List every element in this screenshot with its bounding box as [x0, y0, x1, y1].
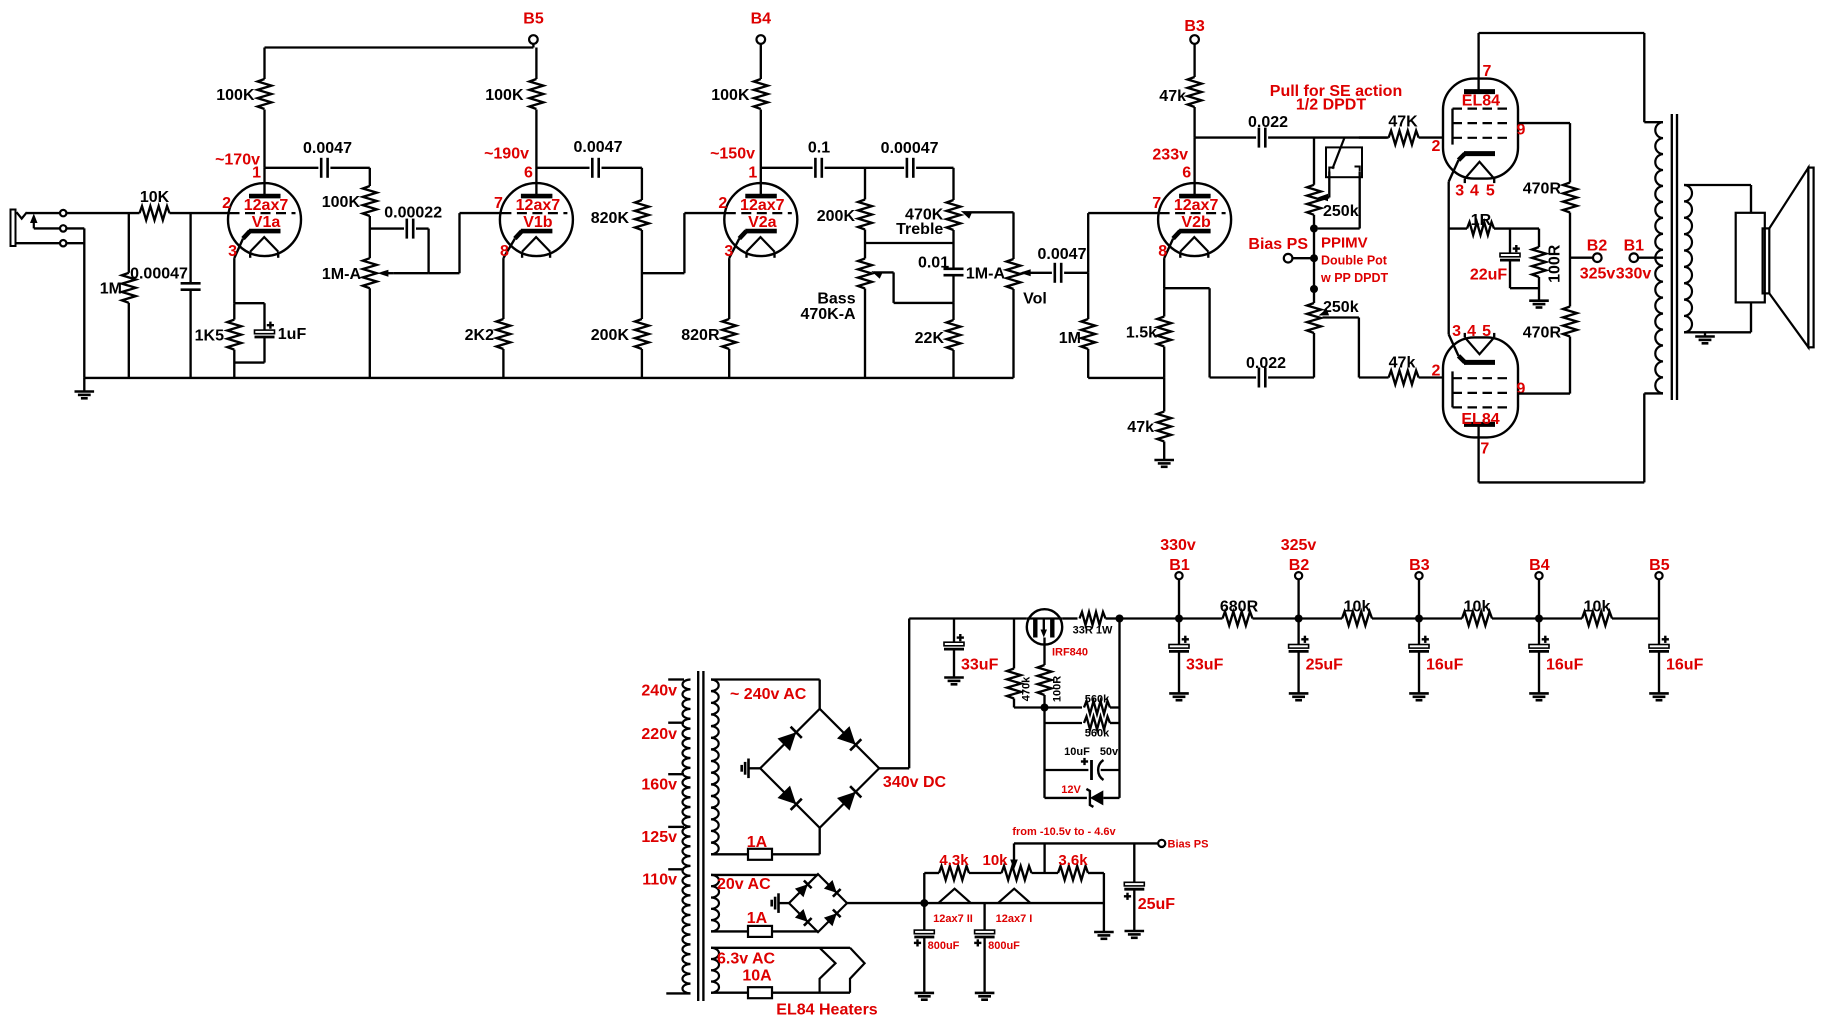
junction dot 33R out [1116, 615, 1124, 623]
svg-text:100K: 100K [216, 87, 255, 104]
resistor 560k (lower) [1045, 717, 1120, 740]
heater filament 12ax7 II [933, 889, 973, 925]
PT core [698, 671, 703, 1001]
terminal B4 [751, 10, 772, 44]
svg-text:Double Pot: Double Pot [1321, 253, 1388, 267]
svg-text:220v: 220v [641, 726, 677, 743]
svg-text:1M: 1M [1059, 330, 1081, 347]
capacitor 1uF (V1a bypass) [234, 303, 306, 362]
svg-text:33uF: 33uF [961, 656, 999, 673]
bridge rectifier diamond [760, 709, 879, 828]
V2b plate lead [1193, 138, 1195, 184]
svg-text:B3: B3 [1184, 18, 1205, 35]
svg-text:3: 3 [1452, 323, 1461, 340]
wire B1 to OT center tap [1638, 257, 1663, 259]
junction dot divider [1041, 704, 1049, 712]
svg-text:330v: 330v [1616, 266, 1652, 283]
wire 10K to V1a grid [170, 212, 229, 214]
heater chevron 2 [850, 948, 865, 993]
svg-text:EL84 Heaters: EL84 Heaters [776, 1001, 877, 1018]
node V2b grid riser [1088, 213, 1158, 273]
speaker driver [1736, 213, 1770, 303]
svg-text:50v: 50v [1100, 746, 1119, 758]
resistor 1K5 (V1a cathode) [195, 303, 242, 378]
svg-text:560k: 560k [1085, 694, 1110, 706]
wire to 820K [602, 168, 642, 200]
svg-text:4.3k: 4.3k [939, 852, 969, 869]
svg-text:325v: 325v [1580, 266, 1616, 283]
wire bridge + to rail [879, 619, 1027, 769]
svg-text:from -10.5v to - 4.6v: from -10.5v to - 4.6v [1012, 826, 1116, 838]
small bridge D4 [824, 910, 841, 927]
resistor 47k (bottom grid) [1359, 354, 1444, 384]
svg-text:470K-A: 470K-A [800, 306, 856, 323]
V1a cathode lead [233, 258, 235, 303]
svg-text:V2b: V2b [1181, 214, 1211, 231]
switch 1/2 DPDT box [1326, 147, 1362, 177]
label Double Pot [1321, 253, 1388, 267]
svg-text:1.5k: 1.5k [1126, 324, 1157, 341]
label ~ 240v AC [730, 686, 807, 703]
svg-text:470R: 470R [1523, 180, 1562, 197]
svg-text:110v: 110v [642, 872, 677, 889]
svg-text:B3: B3 [1409, 557, 1430, 574]
terminal B4 (psu) [1529, 557, 1550, 619]
label 20v AC [717, 876, 771, 893]
svg-text:25uF: 25uF [1138, 896, 1176, 913]
svg-text:1A: 1A [747, 910, 768, 927]
pot 250k (top PPIMV) [1307, 138, 1359, 229]
terminal B2 (output) [1580, 237, 1616, 282]
svg-text:325v: 325v [1281, 537, 1317, 554]
resistor 820R (V2a cathode) [681, 319, 736, 378]
capacitor 10uF 50v [1045, 746, 1120, 780]
svg-text:10k: 10k [1464, 598, 1491, 615]
svg-text:1A: 1A [747, 834, 768, 851]
pentode EL84 (bottom) [1443, 333, 1518, 438]
PT taps [666, 680, 690, 994]
wire EL84 top anode to OT [1479, 33, 1663, 122]
EL84 top labels [1431, 63, 1525, 200]
junction dot B3 [1415, 615, 1423, 623]
svg-text:10A: 10A [742, 967, 772, 984]
wire jack tip to grid node [67, 212, 140, 214]
bridge diode D3 [778, 786, 802, 810]
resistor 3.6k [1058, 852, 1088, 880]
junction dot PPIMV mid [1310, 254, 1318, 262]
OT secondary bottom wire [1684, 302, 1751, 332]
capacitor 0.0047 (V1b out) [574, 139, 623, 178]
resistor 100R (cathode) [1532, 229, 1564, 301]
capacitor 0.01 [918, 243, 964, 303]
svg-text:B1: B1 [1624, 237, 1645, 254]
riser to V2a grid [684, 213, 724, 273]
OT secondary top wire [1684, 185, 1751, 213]
svg-text:V1b: V1b [523, 214, 553, 231]
PPIMV center column [1313, 229, 1315, 290]
svg-text:33uF: 33uF [1186, 656, 1224, 673]
terminal Bias PS (psu) [1158, 838, 1208, 850]
tube V1a 12ax7 [222, 164, 301, 260]
capacitor 0.00047 (tone) [865, 140, 954, 178]
wire B2 tap [1570, 257, 1593, 259]
terminal B5 [523, 10, 544, 47]
capacitor 0.022 (bottom) [1246, 355, 1286, 388]
svg-text:B4: B4 [751, 10, 772, 27]
svg-text:Bias PS: Bias PS [1168, 838, 1209, 850]
treble bottom wire [865, 242, 954, 244]
svg-text:1/2 DPDT: 1/2 DPDT [1296, 96, 1366, 113]
svg-text:Treble: Treble [896, 221, 943, 238]
wire top screen [1518, 123, 1570, 182]
svg-text:7: 7 [494, 195, 503, 212]
svg-text:7: 7 [1483, 63, 1492, 80]
ground bus [84, 377, 1013, 379]
bridge diode D2 [837, 726, 861, 750]
svg-text:1M: 1M [100, 281, 122, 298]
capacitor 16uF (B3) [1409, 619, 1464, 701]
svg-text:0.0047: 0.0047 [303, 140, 352, 157]
resistor 4.3k [939, 852, 969, 880]
svg-text:1M-A: 1M-A [322, 266, 362, 283]
svg-text:7: 7 [1480, 440, 1489, 457]
svg-text:6.3v AC: 6.3v AC [717, 951, 776, 968]
label 233v [1152, 146, 1188, 163]
svg-text:47K: 47K [1388, 113, 1418, 130]
pot 470K-A Bass [800, 243, 872, 378]
capacitor 16uF (B4) [1529, 619, 1584, 701]
svg-text:820K: 820K [591, 210, 630, 227]
svg-text:33R 1W: 33R 1W [1073, 625, 1113, 637]
heater chevron 1 [820, 948, 836, 993]
svg-text:~190v: ~190v [484, 145, 529, 162]
svg-text:250k: 250k [1323, 299, 1359, 316]
resistor 47k (V2b tail) [1127, 378, 1171, 460]
resistor 100K (V2a plate) [711, 44, 768, 109]
svg-text:16uF: 16uF [1666, 656, 1704, 673]
svg-text:2K2: 2K2 [465, 327, 494, 344]
resistor 100K (V1b plate) [485, 48, 543, 110]
ground symbol (main bus) [75, 378, 95, 398]
small bridge D3 [795, 909, 812, 926]
resistor 1R [1449, 212, 1539, 235]
svg-text:Bias PS: Bias PS [1248, 236, 1308, 253]
wire tip node [62, 212, 64, 214]
terminal B3 (preamp) [1184, 18, 1205, 44]
small bridge diamond [789, 874, 847, 932]
small bridge D1 [795, 881, 812, 898]
pot 10k (bias) [982, 852, 1031, 880]
vol wiper arrow [1020, 269, 1052, 276]
resistor 47K (top grid) [1359, 113, 1444, 144]
fuse 10A [742, 967, 772, 998]
resistor 470R (bottom) [1523, 307, 1577, 394]
bridge ground [742, 759, 761, 779]
svg-text:4: 4 [1470, 182, 1479, 199]
node cathode V1a [234, 302, 264, 304]
10k wiper [1010, 843, 1018, 869]
svg-text:5: 5 [1486, 182, 1495, 199]
fuse 1A (HT) [747, 834, 772, 860]
pot 250k (bottom PPIMV) [1307, 289, 1359, 378]
treble wiper arrow [961, 211, 1014, 259]
tube V2a 12ax7 [718, 164, 797, 260]
terminal B2 (psu) [1281, 537, 1317, 619]
V1b plate node wire [536, 167, 589, 169]
svg-text:7: 7 [1152, 195, 1161, 212]
svg-text:8: 8 [500, 243, 509, 260]
small bridge ground [772, 893, 789, 913]
resistor 100K (interstage) [322, 186, 377, 216]
svg-text:Bass: Bass [817, 290, 855, 307]
node 820K/200K junction [641, 230, 643, 319]
bias heater wire [924, 902, 1104, 904]
svg-text:200K: 200K [591, 327, 630, 344]
svg-text:B2: B2 [1587, 237, 1608, 254]
svg-text:160v: 160v [641, 777, 677, 794]
svg-text:680R: 680R [1220, 598, 1259, 615]
svg-text:20v AC: 20v AC [717, 876, 771, 893]
V1b plate lead [535, 110, 537, 184]
OT primary winding [1655, 122, 1663, 393]
svg-text:12ax7 II: 12ax7 II [933, 913, 973, 925]
terminal B5 (psu) [1649, 557, 1670, 619]
pot 470K Treble [896, 168, 960, 243]
svg-text:B1: B1 [1169, 557, 1190, 574]
bridge diode D4 [837, 786, 861, 810]
label ~150v [710, 145, 755, 162]
wire 1M bottom to cathode column [1088, 377, 1164, 379]
wire small bridge out [847, 902, 924, 904]
svg-text:0.022: 0.022 [1246, 355, 1286, 372]
OT core [1672, 114, 1677, 400]
wire HT bottom to bridge [711, 828, 820, 855]
PT HT secondary [711, 680, 719, 855]
label w PP DPDT [1320, 271, 1389, 285]
OT secondary winding [1684, 185, 1692, 332]
junction dot bias node [920, 899, 928, 907]
ground symbol (cathode) [1529, 301, 1549, 308]
small bridge D2 [824, 880, 841, 897]
speaker cone [1769, 168, 1813, 348]
svg-text:~150v: ~150v [710, 145, 755, 162]
V1a plate resistor wire [263, 110, 265, 168]
svg-text:560k: 560k [1085, 728, 1110, 740]
svg-text:100K: 100K [322, 194, 361, 211]
PT 20v secondary [711, 875, 719, 931]
svg-text:1K5: 1K5 [195, 327, 224, 344]
wire 3.6k right down [1088, 873, 1114, 939]
resistor 10K (grid stopper) [140, 189, 170, 220]
V2a plate node wire [761, 167, 813, 169]
svg-text:22uF: 22uF [1470, 266, 1508, 283]
capacitor 33uF (B1) [1169, 619, 1224, 701]
jack sleeve terminal [16, 240, 67, 246]
wire 0.00022 to wiper node [429, 229, 460, 274]
capacitor 0.022 (top) [1248, 114, 1288, 148]
svg-text:1M-A: 1M-A [966, 265, 1006, 282]
svg-text:10K: 10K [140, 189, 170, 206]
svg-text:w PP DPDT: w PP DPDT [1320, 271, 1389, 285]
svg-text:0.0047: 0.0047 [1038, 246, 1087, 263]
svg-text:~ 240v AC: ~ 240v AC [730, 686, 807, 703]
svg-text:4: 4 [1467, 323, 1476, 340]
svg-text:B5: B5 [1649, 557, 1670, 574]
svg-text:B4: B4 [1529, 557, 1550, 574]
label ~190v [484, 145, 529, 162]
svg-text:10k: 10k [1584, 598, 1611, 615]
zener 12V [1045, 784, 1120, 807]
svg-text:100R: 100R [1547, 244, 1564, 283]
junction dot B1 [1175, 615, 1183, 623]
wire switch to wiper [1322, 177, 1329, 197]
capacitor 25uF (B2) [1289, 619, 1344, 701]
resistor 200K (V1b) [591, 319, 649, 378]
svg-text:2: 2 [1431, 362, 1440, 379]
divider right column [1118, 619, 1120, 798]
switch contact wires [1329, 172, 1359, 178]
switch lever [1329, 138, 1359, 172]
wire 20v bottom to small bridge [711, 930, 818, 932]
EL84 bottom labels [1431, 323, 1525, 457]
svg-text:3.6k: 3.6k [1058, 852, 1088, 869]
wire switch right contact down [1318, 177, 1360, 228]
svg-text:22K: 22K [915, 330, 945, 347]
svg-text:EL84: EL84 [1462, 93, 1500, 110]
resistor 470R (top) [1523, 180, 1577, 306]
resistor 22K [915, 303, 961, 378]
B5 top rail [265, 46, 534, 48]
fuse 1A (bias) [747, 910, 772, 937]
bass wiper arrow [871, 271, 953, 303]
capacitor 22uF [1470, 229, 1520, 289]
svg-text:0.00047: 0.00047 [130, 265, 188, 282]
capacitor 800uF (1) [914, 903, 960, 1000]
cathode node wire right [1164, 288, 1209, 377]
svg-text:800uF: 800uF [928, 940, 960, 952]
svg-text:10uF: 10uF [1064, 746, 1090, 758]
wire EL84 bottom anode to OT [1479, 393, 1663, 482]
wire 4.3k to 10k [969, 872, 1002, 874]
wire 0.022 to pot bottom [1268, 376, 1314, 378]
svg-text:V1a: V1a [252, 214, 281, 231]
svg-text:EL84: EL84 [1461, 411, 1499, 428]
riser to V1b grid [460, 213, 500, 273]
svg-text:0.022: 0.022 [1248, 114, 1288, 131]
V2a cathode lead [728, 258, 730, 319]
resistor 10k (B3-B4) [1419, 598, 1539, 625]
V1a plate node wire [265, 167, 319, 169]
svg-text:10k: 10k [982, 852, 1008, 869]
capacitor 0.1 [808, 139, 830, 178]
svg-text:1R: 1R [1471, 212, 1492, 229]
junction dot B4 [1535, 615, 1543, 623]
svg-text:16uF: 16uF [1426, 656, 1464, 673]
svg-text:100K: 100K [711, 87, 750, 104]
label EL84 Heaters [776, 1001, 877, 1018]
label 6.3v AC [717, 951, 776, 968]
svg-text:2: 2 [718, 195, 727, 212]
label ~170v [215, 151, 260, 168]
terminal B3 (psu) [1409, 557, 1430, 619]
svg-text:47k: 47k [1389, 354, 1416, 371]
svg-text:800uF: 800uF [988, 940, 1020, 952]
svg-text:V2a: V2a [748, 214, 777, 231]
junction dot B2 [1295, 615, 1303, 623]
resistor 47k (V2b plate) [1159, 44, 1201, 138]
svg-text:IRF840: IRF840 [1052, 647, 1088, 659]
svg-text:0.00047: 0.00047 [881, 140, 939, 157]
wire 10k to 3.6k [1032, 872, 1059, 874]
svg-text:0.1: 0.1 [808, 139, 830, 156]
V2a plate lead [760, 110, 762, 184]
bias rail [1014, 842, 1158, 844]
resistor 820K [591, 200, 649, 230]
ground symbol (V2b tail) [1154, 460, 1174, 467]
svg-text:B2: B2 [1289, 557, 1310, 574]
wire bottom screen [1518, 392, 1570, 394]
wire HT top to bridge [711, 680, 820, 709]
svg-text:0.0047: 0.0047 [574, 139, 623, 156]
resistor 200K (tone) [817, 168, 872, 243]
wire 0.1 to tone node [825, 167, 865, 169]
svg-text:5: 5 [1482, 323, 1491, 340]
capacitor 25uF (bias) [1124, 843, 1175, 937]
svg-text:8: 8 [1158, 243, 1167, 260]
svg-text:1uF: 1uF [278, 326, 307, 343]
svg-text:10k: 10k [1344, 598, 1371, 615]
svg-text:470R: 470R [1523, 325, 1562, 342]
svg-text:12ax7: 12ax7 [244, 197, 289, 214]
wire V2b plate to 0.022 [1195, 136, 1257, 138]
250k top wiper arrow [1318, 194, 1329, 201]
svg-text:820R: 820R [681, 327, 720, 344]
PT tap labels [641, 682, 677, 888]
wire 20v top to small bridge [711, 874, 818, 876]
riser bias tap [1043, 843, 1045, 873]
resistor 10k (B2-B3) [1299, 598, 1419, 625]
svg-text:B5: B5 [523, 10, 544, 27]
resistor 100K (V1a plate) [216, 48, 271, 110]
capacitor 0.0047 (to V2b) [1038, 246, 1089, 283]
ground symbol (speaker) [1695, 332, 1715, 343]
capacitor 33uF (reservoir) [944, 619, 999, 685]
svg-text:Vol: Vol [1023, 290, 1047, 307]
svg-text:2: 2 [1431, 138, 1440, 155]
wire junction to V2a grid riser [642, 272, 685, 274]
resistor 1.5k (V2b cathode) [1126, 288, 1171, 378]
svg-text:330v: 330v [1160, 537, 1196, 554]
PT primary winding [682, 680, 690, 994]
jack tip terminal [27, 210, 67, 216]
svg-text:~170v: ~170v [215, 151, 260, 168]
svg-text:6: 6 [524, 164, 533, 181]
svg-text:250k: 250k [1323, 203, 1359, 220]
terminal Bias PS (PPIMV) [1248, 236, 1314, 263]
V1a plate lead [263, 168, 265, 183]
svg-text:16uF: 16uF [1546, 656, 1584, 673]
resistor 2K2 (V1b cathode) [465, 319, 511, 378]
wire 0.022 to pot/switch [1268, 136, 1387, 138]
capacitor 16uF (B5) [1649, 619, 1704, 701]
svg-text:3: 3 [1455, 182, 1464, 199]
svg-text:25uF: 25uF [1306, 656, 1344, 673]
svg-text:6: 6 [1182, 164, 1191, 181]
MOSFET IRF840 [1027, 609, 1088, 658]
pot 1M-A (V1a) [322, 246, 377, 378]
node 100K bottom [369, 216, 371, 246]
pot 1M-A Vol [966, 259, 1047, 378]
